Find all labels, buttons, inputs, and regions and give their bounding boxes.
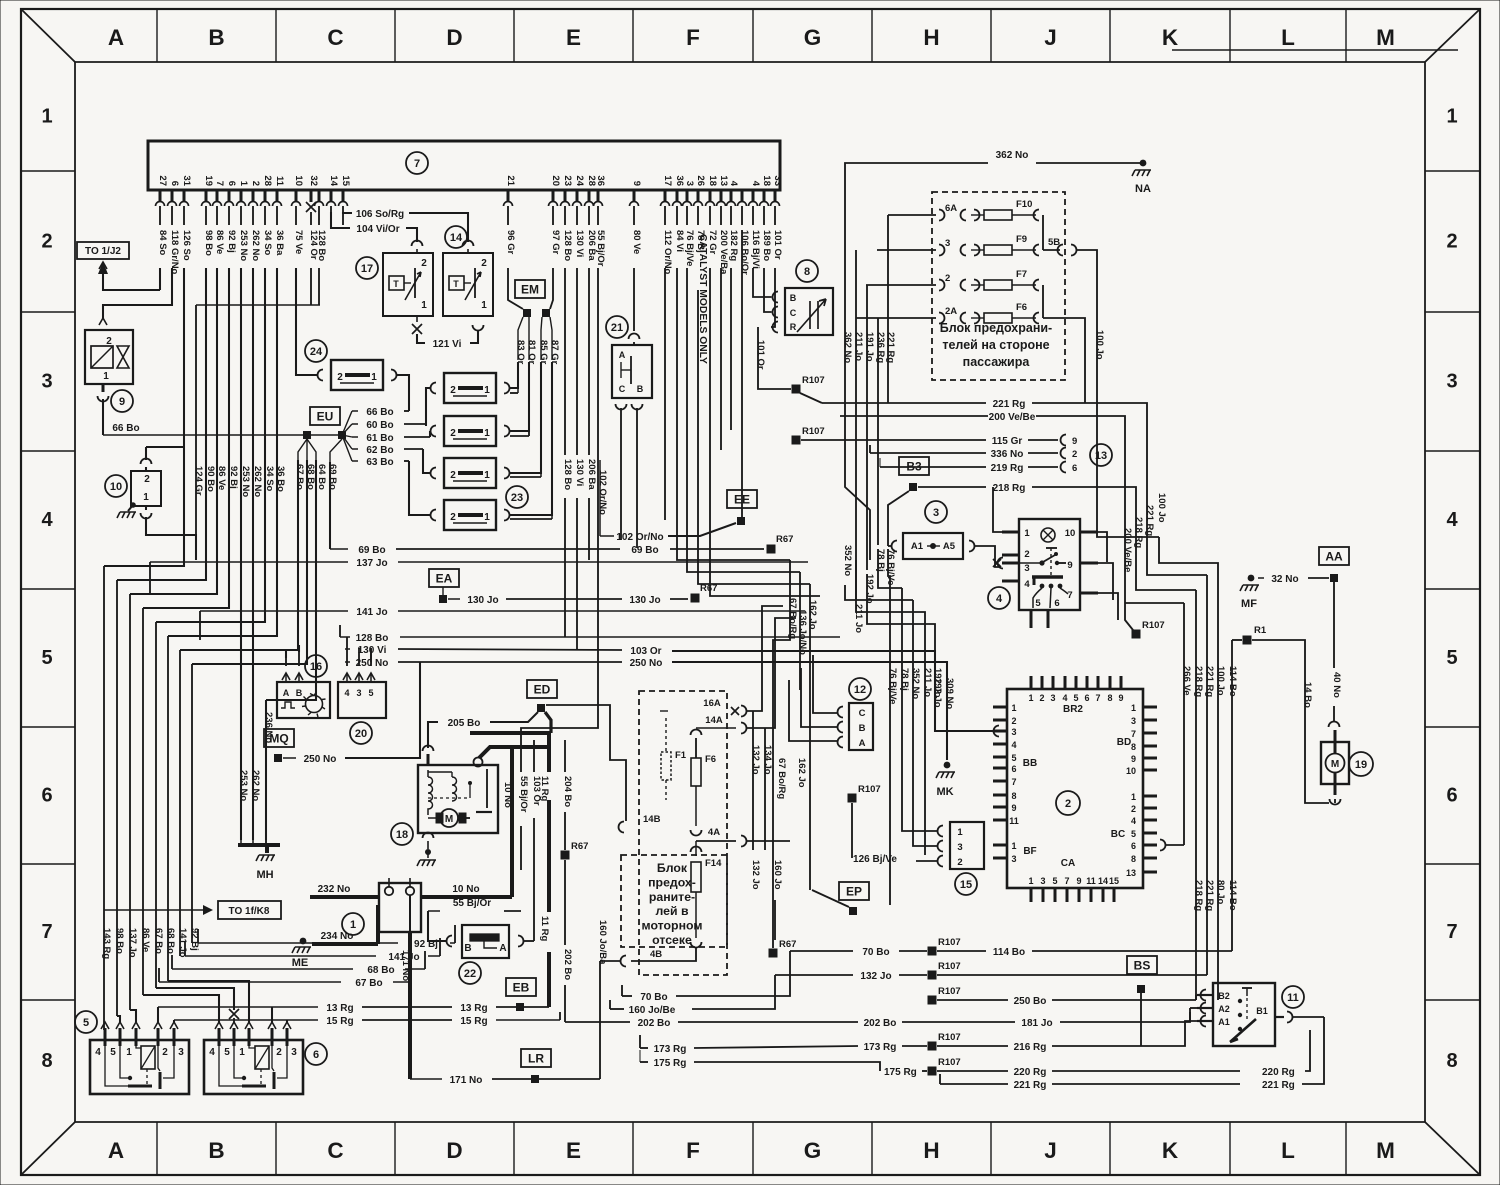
svg-text:C: C: [619, 384, 626, 394]
svg-text:70 Bo: 70 Bo: [862, 947, 889, 958]
svg-text:R107: R107: [938, 937, 961, 948]
svg-text:66 Bo: 66 Bo: [366, 407, 393, 418]
svg-text:234 No: 234 No: [321, 931, 354, 942]
wire to injector 23-2: [429, 431, 431, 437]
connector 15: [955, 873, 977, 895]
wires resistor 22: [524, 940, 534, 942]
wire 352 No staircase: [845, 585, 913, 600]
wire 60 Bo: [352, 423, 358, 425]
svg-text:M: M: [445, 814, 453, 825]
svg-text:5: 5: [110, 1047, 116, 1058]
junction R107 upper-1: [792, 385, 801, 394]
svg-text:2: 2: [276, 1047, 282, 1058]
svg-text:181 Jo: 181 Jo: [1021, 1018, 1052, 1029]
svg-text:6: 6: [41, 785, 52, 807]
svg-text:128 Bo: 128 Bo: [356, 633, 389, 644]
svg-text:7: 7: [1067, 590, 1072, 601]
injector 23-4: [444, 500, 496, 530]
svg-text:TO 1f/K8: TO 1f/K8: [229, 906, 270, 917]
svg-text:160 Jo/Ba: 160 Jo/Ba: [597, 920, 608, 965]
svg-text:10: 10: [293, 175, 304, 186]
wire 182 Rg down: [730, 268, 732, 430]
fuse F6: [856, 317, 936, 319]
wire 206 Ba down: [588, 268, 590, 455]
svg-text:126 Bj/Ve: 126 Bj/Ve: [853, 854, 897, 865]
svg-text:6: 6: [1446, 785, 1457, 807]
wire 362 No vertical: [845, 215, 870, 560]
svg-text:5: 5: [368, 688, 373, 698]
svg-text:130 Vi: 130 Vi: [574, 459, 585, 486]
svg-text:24: 24: [310, 346, 323, 358]
wire 124 Or stub: [310, 268, 312, 305]
svg-text:H: H: [923, 1138, 939, 1163]
svg-text:4: 4: [728, 181, 739, 187]
svg-text:21: 21: [505, 175, 516, 186]
svg-text:121 Vi: 121 Vi: [433, 339, 462, 350]
svg-text:211 Jo: 211 Jo: [853, 604, 864, 633]
svg-text:3: 3: [933, 507, 939, 519]
svg-text:E: E: [566, 1138, 581, 1163]
unit 4 internals: [1046, 547, 1057, 549]
svg-text:1: 1: [1024, 528, 1030, 539]
svg-text:2: 2: [41, 231, 52, 253]
svg-text:8: 8: [1131, 854, 1136, 864]
wire 173 Rg: [640, 1047, 648, 1049]
svg-text:Блок: Блок: [657, 861, 688, 875]
svg-text:3: 3: [178, 1047, 184, 1058]
svg-text:220 Rg: 220 Rg: [1262, 1067, 1295, 1078]
wires fuse holder 3: [888, 545, 891, 547]
svg-text:19: 19: [1355, 759, 1367, 771]
svg-text:4: 4: [1024, 579, 1030, 590]
svg-text:B: B: [464, 943, 471, 954]
svg-text:R107: R107: [858, 784, 881, 795]
svg-text:202 Bo: 202 Bo: [864, 1018, 897, 1029]
svg-text:TO 1/J2: TO 1/J2: [85, 246, 121, 257]
capacitor in unit 18: [486, 775, 488, 808]
svg-text:9: 9: [1067, 560, 1072, 571]
junction EE: [737, 517, 745, 525]
wire 128 Bo: [340, 636, 350, 638]
wire 218 Rg row4: [918, 486, 986, 488]
control unit 2: [1007, 689, 1143, 888]
wire from ECU: [143, 268, 229, 608]
wire 362 No: [845, 163, 988, 215]
svg-text:13: 13: [718, 175, 729, 186]
svg-text:9: 9: [631, 181, 642, 186]
wires into relay 6: [143, 995, 219, 1022]
svg-text:6: 6: [1054, 598, 1059, 609]
svg-text:4: 4: [344, 688, 349, 698]
svg-text:15: 15: [340, 175, 351, 186]
svg-text:8: 8: [1011, 791, 1016, 801]
wires into relay 5: [104, 1028, 105, 1030]
wire 116 Bj/Vi down: [753, 268, 771, 297]
svg-text:9: 9: [119, 396, 125, 408]
svg-text:B: B: [208, 25, 224, 50]
svg-text:250 Bo: 250 Bo: [1014, 996, 1047, 1007]
svg-text:80 Ve: 80 Ve: [631, 230, 642, 254]
wire 130 Jo: [448, 598, 460, 600]
injector 23-3: [444, 458, 496, 488]
wire 204 Bo vertical: [564, 740, 566, 772]
svg-text:55 Bj/Or: 55 Bj/Or: [595, 230, 606, 267]
svg-text:78 Bj: 78 Bj: [875, 549, 886, 572]
ground NA: [1140, 160, 1147, 167]
svg-text:13: 13: [1126, 868, 1136, 878]
svg-text:B: B: [637, 384, 644, 394]
svg-text:36: 36: [595, 175, 606, 186]
svg-text:67 Bo/Rg: 67 Bo/Rg: [776, 758, 787, 799]
svg-text:221 Rg: 221 Rg: [1144, 505, 1155, 536]
svg-text:G: G: [804, 1138, 822, 1163]
svg-text:3: 3: [1011, 854, 1016, 864]
junction EU-1: [303, 431, 311, 439]
svg-text:M: M: [1376, 25, 1395, 50]
switch 11 internals: [1246, 988, 1248, 996]
svg-text:телей на стороне: телей на стороне: [942, 338, 1049, 352]
junction R107 near 15: [848, 794, 857, 803]
svg-text:200 Ve/Be: 200 Ve/Be: [1122, 528, 1133, 572]
svg-text:10: 10: [1065, 528, 1076, 539]
svg-text:4: 4: [1446, 509, 1458, 531]
wire 192 Jo staircase: [867, 574, 935, 700]
wire 78 Bj staircase: [878, 549, 902, 588]
svg-text:13: 13: [1095, 450, 1107, 462]
svg-text:F7: F7: [1016, 269, 1027, 280]
svg-text:K: K: [1162, 25, 1179, 50]
svg-text:16: 16: [310, 661, 322, 673]
svg-text:14A: 14A: [705, 715, 723, 726]
TO 1/J2 reference: [77, 242, 129, 259]
svg-text:2: 2: [1065, 798, 1071, 810]
wire 205 Bo: [428, 722, 438, 748]
svg-text:136 Jo/No: 136 Jo/No: [797, 610, 808, 655]
junction LR: [531, 1075, 539, 1083]
svg-text:83 Or: 83 Or: [515, 340, 526, 365]
svg-text:CA: CA: [1061, 858, 1075, 869]
svg-text:86 Ve: 86 Ve: [214, 230, 225, 254]
wiper motor 19: [1349, 752, 1373, 776]
fuse F10: [888, 214, 936, 216]
junction R107 upper-2: [792, 436, 801, 445]
resistor 22: [459, 962, 481, 984]
svg-text:132 Jo: 132 Jo: [860, 971, 891, 982]
svg-text:6A: 6A: [945, 203, 957, 214]
svg-text:262 No: 262 No: [250, 230, 261, 261]
pin 4 of relay 6: [215, 1022, 223, 1029]
wire 63 Bo: [352, 460, 358, 462]
sensor 8: [796, 260, 818, 282]
svg-text:218 Rg: 218 Rg: [993, 483, 1026, 494]
svg-text:2: 2: [421, 258, 427, 269]
junction EU-2: [338, 431, 346, 439]
svg-text:R107: R107: [938, 1057, 961, 1068]
svg-text:1: 1: [484, 470, 490, 481]
svg-text:101 Or: 101 Or: [755, 340, 766, 370]
svg-text:EP: EP: [846, 885, 862, 899]
svg-text:78 Bj: 78 Bj: [899, 668, 910, 691]
wire 236 No down: [265, 700, 267, 840]
svg-text:3: 3: [684, 181, 695, 186]
svg-text:70 Bo: 70 Bo: [640, 992, 667, 1003]
svg-text:8: 8: [1107, 693, 1112, 703]
ignition switch 11: [1282, 986, 1304, 1008]
svg-text:220 Rg: 220 Rg: [1014, 1067, 1047, 1078]
svg-text:3: 3: [1050, 693, 1055, 703]
pin 1 of relay 6: [245, 1022, 253, 1029]
junction R107 on 250 Bo: [928, 996, 937, 1005]
svg-text:16A: 16A: [703, 698, 721, 709]
svg-text:128 Bo: 128 Bo: [562, 459, 573, 490]
svg-text:NA: NA: [1135, 183, 1151, 195]
wire 68 Bo: [172, 968, 353, 970]
svg-text:3: 3: [291, 1047, 297, 1058]
thick wire 171 No: [408, 932, 412, 1079]
svg-text:67 Bo: 67 Bo: [153, 928, 164, 954]
wire 80 Ve to unit 21: [633, 268, 635, 331]
relay 6 internals: [255, 1046, 269, 1069]
svg-text:A: A: [499, 943, 506, 954]
svg-text:2: 2: [1131, 804, 1136, 814]
svg-text:250 No: 250 No: [304, 754, 337, 765]
svg-text:1: 1: [1011, 703, 1016, 713]
svg-text:36: 36: [674, 175, 685, 186]
svg-text:4: 4: [209, 1047, 215, 1058]
svg-text:1: 1: [350, 919, 356, 931]
svg-text:11 Rg: 11 Rg: [539, 916, 550, 942]
svg-text:55 Bj/Or: 55 Bj/Or: [518, 776, 529, 813]
svg-text:68 Bo: 68 Bo: [367, 965, 394, 976]
svg-text:5: 5: [1073, 693, 1078, 703]
svg-text:18: 18: [707, 175, 718, 186]
unit 2 pin3 connector: [994, 726, 1000, 737]
svg-text:T: T: [393, 279, 399, 289]
svg-text:3: 3: [1131, 716, 1136, 726]
svg-text:216 Rg: 216 Rg: [1014, 1042, 1047, 1053]
svg-text:A2: A2: [1218, 1004, 1230, 1014]
svg-text:3: 3: [957, 842, 962, 853]
wire 55 Bj/Or down: [521, 268, 598, 740]
junction R107 on 173 Rg: [928, 1042, 937, 1051]
wires into connector 12: [813, 655, 837, 713]
svg-text:137 Jo: 137 Jo: [127, 928, 138, 958]
svg-text:336 No: 336 No: [991, 449, 1024, 460]
svg-text:141 Jo: 141 Jo: [177, 928, 188, 958]
svg-text:R107: R107: [938, 961, 961, 972]
wire 253 No down: [240, 268, 242, 840]
junction R67 on 204 Bo: [561, 851, 570, 860]
svg-text:7: 7: [414, 158, 420, 170]
svg-text:21: 21: [611, 322, 623, 334]
svg-text:5: 5: [41, 647, 52, 669]
switch 10: [105, 475, 127, 497]
wire 202 Bo: [565, 1021, 630, 1023]
svg-text:61 Bo: 61 Bo: [366, 433, 393, 444]
svg-text:3: 3: [945, 238, 950, 249]
svg-text:118 Gr/No: 118 Gr/No: [169, 230, 180, 275]
svg-text:206 Ba: 206 Ba: [586, 459, 597, 490]
svg-text:2: 2: [945, 273, 950, 284]
svg-text:92 Bj: 92 Bj: [226, 230, 237, 253]
svg-text:EM: EM: [521, 283, 539, 297]
svg-text:A: A: [619, 350, 626, 360]
svg-text:1: 1: [484, 385, 490, 396]
svg-text:14B: 14B: [643, 814, 661, 825]
svg-text:11: 11: [1086, 876, 1096, 886]
svg-text:130 Vi: 130 Vi: [358, 645, 387, 656]
svg-text:3: 3: [1011, 727, 1016, 737]
svg-text:C: C: [790, 308, 797, 318]
fuse F14: [695, 841, 697, 856]
svg-text:14 Bo: 14 Bo: [1302, 682, 1313, 708]
svg-text:моторном: моторном: [642, 919, 703, 933]
svg-text:200 Ve/Ba: 200 Ve/Ba: [718, 230, 729, 275]
thick wire 10 No: [510, 747, 514, 897]
svg-text:8: 8: [1131, 742, 1136, 752]
wire 15 Rg: [174, 1019, 318, 1021]
svg-text:K: K: [1162, 1138, 1179, 1163]
wire 250 No: [345, 661, 350, 663]
ground at switch 10: [130, 502, 136, 508]
left harness verticals: [103, 566, 105, 1030]
BS net label: [1127, 956, 1157, 974]
svg-text:67 Bo: 67 Bo: [294, 464, 305, 490]
thick feed bus to unit 18: [470, 731, 551, 735]
svg-text:F: F: [686, 25, 700, 50]
svg-text:32: 32: [308, 175, 319, 186]
EU branch wires down: [180, 460, 298, 650]
svg-text:A: A: [283, 688, 290, 698]
lamp in unit 4: [1041, 528, 1055, 542]
svg-text:160 Jo: 160 Jo: [772, 860, 783, 890]
svg-text:221 Rg: 221 Rg: [1014, 1080, 1047, 1091]
svg-text:7: 7: [1446, 921, 1457, 943]
wire 191 Jo vertical: [866, 285, 868, 570]
pin arc unit 18: [423, 746, 434, 752]
svg-text:3: 3: [356, 688, 361, 698]
wire 189 Bo down: [764, 268, 771, 312]
svg-text:9: 9: [1011, 803, 1016, 813]
svg-text:11: 11: [1287, 992, 1299, 1004]
svg-text:C: C: [859, 708, 866, 719]
svg-text:8: 8: [804, 266, 810, 278]
svg-text:63 Bo: 63 Bo: [366, 457, 393, 468]
wire 234 No: [312, 942, 378, 946]
wire 200 Ve/Be end R107: [1132, 630, 1141, 639]
svg-text:15 Rg: 15 Rg: [326, 1016, 353, 1027]
svg-text:173 Rg: 173 Rg: [864, 1042, 897, 1053]
svg-text:CATALYST MODELS ONLY: CATALYST MODELS ONLY: [697, 234, 708, 364]
svg-text:7: 7: [1011, 777, 1016, 787]
svg-text:7: 7: [1064, 876, 1069, 886]
svg-text:4: 4: [1011, 740, 1016, 750]
top right margin line: [1172, 49, 1458, 51]
LR net label: [521, 1049, 551, 1067]
pin 4 of relay 5: [101, 1022, 109, 1029]
svg-text:R107: R107: [802, 375, 825, 386]
svg-text:87 Gr: 87 Gr: [549, 340, 560, 365]
fuse box output wires: [1042, 215, 1044, 250]
svg-text:R107: R107: [938, 986, 961, 997]
ground MH: [238, 843, 280, 847]
svg-text:9: 9: [1072, 436, 1077, 447]
wires into switch 11: [1195, 995, 1197, 1000]
wires unit 21: [629, 334, 640, 340]
sensor 17: [356, 257, 378, 279]
svg-text:266 Ve: 266 Ve: [1181, 666, 1192, 696]
svg-text:76 Bj/Ve: 76 Bj/Ve: [887, 668, 898, 704]
wire 40 No: [1333, 582, 1335, 668]
svg-text:2: 2: [450, 385, 456, 396]
unit 2 left pins: [993, 706, 1007, 709]
EA net label: [429, 569, 459, 587]
svg-text:221 Rg: 221 Rg: [885, 332, 896, 363]
svg-text:13 Rg: 13 Rg: [460, 1003, 487, 1014]
svg-text:4: 4: [95, 1047, 101, 1058]
MQ net label: [264, 729, 294, 747]
svg-text:R: R: [790, 322, 797, 332]
svg-text:3: 3: [41, 371, 52, 393]
wire 115 Gr: [822, 439, 986, 441]
svg-text:23: 23: [511, 492, 523, 504]
relay 5 internals: [141, 1046, 155, 1069]
svg-text:69 Bo: 69 Bo: [631, 545, 658, 556]
wire 55 Bj/Or vertical: [520, 740, 522, 772]
svg-text:115 Gr: 115 Gr: [992, 436, 1023, 447]
ignition coil unit 18: [391, 823, 413, 845]
svg-text:F9: F9: [1016, 234, 1027, 245]
svg-text:173 Rg: 173 Rg: [654, 1044, 687, 1055]
injector 23-1: [444, 373, 496, 403]
svg-text:202 Bo: 202 Bo: [638, 1018, 671, 1029]
junction R67 on 130 Jo: [691, 594, 700, 603]
svg-text:A5: A5: [943, 541, 956, 552]
wire 112 Or/No down: [664, 268, 666, 520]
svg-text:100 Jo: 100 Jo: [1156, 493, 1167, 523]
junction EA: [439, 595, 447, 603]
svg-text:40 No: 40 No: [1331, 672, 1342, 698]
svg-text:221 Rg: 221 Rg: [1204, 666, 1215, 697]
svg-text:17: 17: [361, 263, 373, 275]
svg-text:8: 8: [1446, 1050, 1457, 1072]
svg-text:28: 28: [262, 175, 273, 186]
svg-text:LR: LR: [528, 1052, 544, 1066]
svg-text:15 Rg: 15 Rg: [460, 1016, 487, 1027]
wire 92 Bj: [198, 942, 398, 944]
svg-text:221 Rg: 221 Rg: [1262, 1080, 1295, 1091]
wire 100 Jo zigzag: [1159, 537, 1218, 1000]
svg-text:2A: 2A: [945, 306, 957, 317]
wire 76 Bj/Ve down: [687, 268, 800, 572]
pin 106 Bo/Or of unit 7: [741, 190, 744, 202]
svg-text:75 Ve: 75 Ve: [293, 230, 304, 254]
svg-text:MQ: MQ: [269, 732, 288, 746]
unit 18 internals: [428, 770, 433, 815]
pins unit 4: [1002, 531, 1019, 534]
fuse holder 3: [925, 501, 947, 523]
junction AA: [1330, 574, 1338, 582]
wire to injector 23-3: [423, 449, 430, 473]
svg-text:10: 10: [1126, 766, 1136, 776]
svg-text:4B: 4B: [650, 949, 662, 960]
junction R1: [1243, 636, 1252, 645]
wire from ECU: [130, 268, 217, 594]
wires of switch 10: [141, 459, 152, 464]
injector 23-2: [444, 416, 496, 446]
svg-text:106 Bo/Or: 106 Bo/Or: [739, 230, 750, 275]
svg-text:20: 20: [355, 728, 367, 740]
